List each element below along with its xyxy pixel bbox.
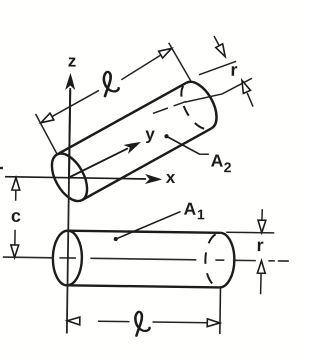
- svg-text:y: y: [145, 125, 155, 144]
- vertical centerline through both cylinder centers: [67, 88, 70, 333]
- label A2 leader line: [166, 136, 209, 154]
- x-axis shaft (extends left as c-dimension extension line): [5, 177, 146, 179]
- svg-text:x: x: [166, 168, 176, 187]
- cylinder A2 right cap hidden arc (dashed): [174, 83, 211, 135]
- dimension c upper arrowhead: [12, 178, 20, 191]
- dimension r lower arrowhead: [238, 79, 250, 94]
- svg-text:r: r: [230, 60, 237, 80]
- dimension l bottom line segment a: [98, 320, 129, 322]
- dimension r upper arrow shaft: [214, 36, 220, 46]
- cylinder A2 left end cap ellipse: [45, 148, 95, 207]
- cylinder A1 right cap hidden arc (dashed): [205, 233, 220, 288]
- cylinder A1 bottom edge: [67, 285, 219, 287]
- svg-text:1: 1: [197, 206, 205, 222]
- dimension r right lower arrowhead: [257, 261, 265, 274]
- cylinder A2 (upper, tilted): [45, 76, 224, 207]
- stray scan mark left edge: [0, 167, 3, 169]
- cylinder A1 left end cap ellipse: [52, 230, 82, 285]
- x-axis arrowhead: [145, 174, 162, 184]
- svg-text:A: A: [211, 150, 224, 170]
- y-axis shaft: [69, 148, 128, 179]
- dimension c lower arrow shaft: [14, 230, 16, 246]
- svg-text:2: 2: [224, 159, 232, 175]
- dimension l bottom right arrowhead: [207, 319, 220, 327]
- cylinder A1 right cap visible arc: [219, 233, 234, 288]
- cylinder A1 top edge: [68, 231, 220, 233]
- label A1 leader dot: [114, 237, 118, 241]
- dimension l bottom left arrowhead: [67, 317, 80, 325]
- dimension l (bottom) right extension line: [219, 287, 222, 334]
- dimension r right upper arrowhead: [258, 220, 266, 233]
- dimension l bottom line segment b: [152, 321, 208, 324]
- cylinder A1 (lower, horizontal): [52, 230, 234, 287]
- y-axis arrowhead: [124, 137, 144, 154]
- z-axis arrowhead: [65, 73, 75, 90]
- centerline of A1 (horizontal dash-dot): [3, 257, 289, 261]
- dimension c lower arrowhead: [11, 245, 19, 258]
- dimension r lower extension line (centerline extended): [185, 77, 252, 103]
- dimension l left arrowhead: [39, 113, 54, 126]
- label A1 leader line: [116, 211, 181, 240]
- dimension l (top, along cylinder A2) line left segment: [41, 90, 99, 124]
- dimension l left extension line: [35, 114, 58, 155]
- dimension c upper arrow shaft: [15, 189, 17, 200]
- dimension l right extension line: [168, 43, 191, 81]
- cylinder A2 top edge: [57, 83, 186, 155]
- dimension r (right side, radius of A1) top extension line: [226, 231, 274, 234]
- dimension l line right segment: [121, 48, 171, 81]
- label A2 leader dot: [164, 134, 168, 138]
- centerline dashes inside A2 toward cap: [153, 101, 186, 114]
- dimension r lower arrow shaft: [247, 93, 253, 107]
- svg-text:r: r: [256, 235, 263, 255]
- cylinder A2 bottom edge: [82, 128, 211, 200]
- dimension r right upper arrow shaft: [261, 209, 263, 221]
- dimension r right lower arrow shaft: [260, 273, 263, 295]
- cylinder A2 right cap visible arc: [186, 76, 223, 128]
- svg-text:A: A: [183, 199, 196, 219]
- z-axis shaft: [69, 90, 70, 177]
- dimension r (upper right, radius of A2) upper extension line: [199, 61, 236, 76]
- svg-text:z: z: [68, 51, 77, 70]
- svg-text:c: c: [11, 206, 21, 226]
- label l (script ell, bottom): [135, 312, 150, 336]
- label l (script ell, top): [104, 72, 119, 97]
- dimension r upper arrowhead: [216, 44, 229, 59]
- dimension l right arrowhead: [159, 45, 174, 58]
